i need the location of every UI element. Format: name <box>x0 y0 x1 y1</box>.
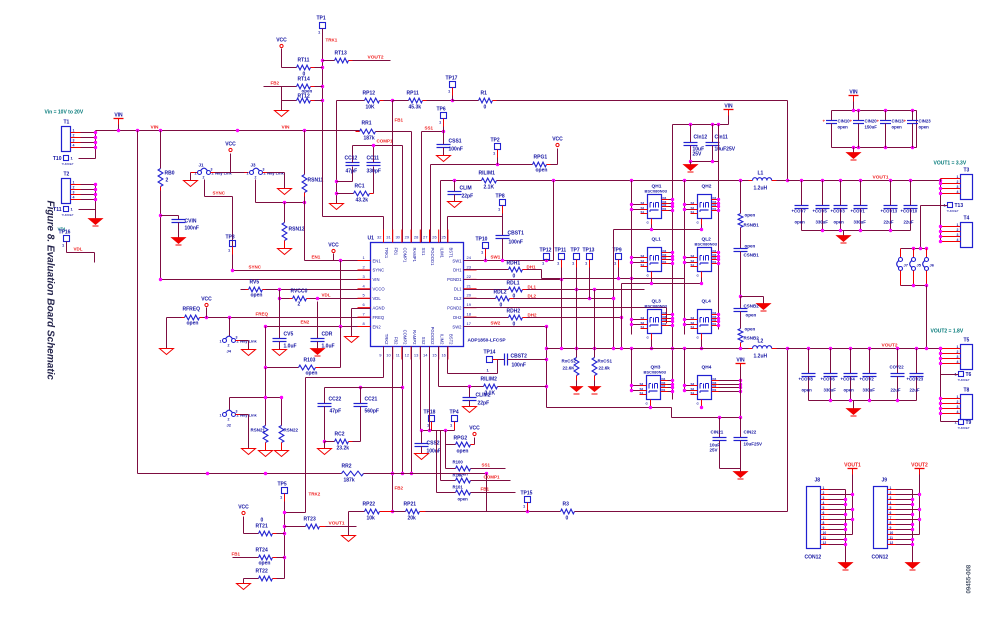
svg-text:T2: T2 <box>64 172 70 178</box>
svg-text:TURRET: TURRET <box>958 378 970 382</box>
svg-text:TP1: TP1 <box>317 16 326 22</box>
svg-text:RAMP1: RAMP1 <box>412 248 417 263</box>
wire R101 right <box>471 492 516 494</box>
transistor QL1 <box>641 237 669 278</box>
wire vout1 bank bottom <box>802 230 911 232</box>
capacitor CC21 <box>354 388 379 442</box>
svg-text:S1: S1 <box>641 263 645 267</box>
svg-text:TRK1: TRK1 <box>326 38 338 43</box>
ground CVIN <box>172 238 186 246</box>
ground RP22 <box>342 536 356 542</box>
svg-text:EN1: EN1 <box>312 255 321 260</box>
wire R101 left <box>437 431 456 493</box>
resistor RT24 <box>233 548 285 567</box>
svg-text:J2: J2 <box>227 423 232 428</box>
testpoint TP17 <box>446 76 458 101</box>
junction <box>650 228 703 231</box>
svg-text:3: 3 <box>957 233 959 237</box>
svg-text:22: 22 <box>467 274 472 279</box>
svg-text:CIN10: CIN10 <box>838 119 851 124</box>
svg-text:RILIM2: RILIM2 <box>481 377 498 383</box>
svg-text:EN2: EN2 <box>373 324 382 329</box>
wire links top <box>901 248 927 250</box>
svg-text:D1: D1 <box>713 388 717 392</box>
svg-text:RT23: RT23 <box>304 517 316 523</box>
svg-text:2: 2 <box>228 418 230 422</box>
capacitor COV3 <box>831 181 848 231</box>
ground J8 <box>839 563 853 571</box>
wire VDL row <box>280 298 371 300</box>
svg-text:T3: T3 <box>964 168 970 174</box>
svg-text:RT13: RT13 <box>335 51 347 57</box>
svg-text:26: 26 <box>432 235 437 240</box>
testpoint TP4 <box>450 410 459 431</box>
svg-text:CIN21: CIN21 <box>711 430 724 435</box>
svg-text:R100: R100 <box>453 460 464 465</box>
wire SW1 row <box>464 260 554 262</box>
wire SW1 rail <box>497 180 753 182</box>
junction <box>649 406 742 419</box>
svg-text:SS2: SS2 <box>421 337 426 346</box>
resistor RSN11 <box>302 131 323 203</box>
svg-text:1: 1 <box>195 172 197 176</box>
wire J3 right <box>263 173 285 189</box>
svg-text:21: 21 <box>467 283 472 288</box>
ground CLIM <box>448 202 462 208</box>
svg-text:TP3: TP3 <box>226 235 235 241</box>
svg-text:+COV7: +COV7 <box>792 209 807 214</box>
svg-text:QH4: QH4 <box>702 365 712 371</box>
wire QL3 conns <box>630 313 674 327</box>
wire CVIN gnd <box>178 223 180 238</box>
capacitor CIn11 <box>706 125 736 162</box>
svg-text:2: 2 <box>255 176 257 180</box>
wire EN2 lower <box>230 368 282 426</box>
label FB1 mid <box>395 118 404 123</box>
wire RR2 row right <box>364 473 487 475</box>
svg-text:25: 25 <box>441 235 446 240</box>
junction <box>786 347 789 350</box>
svg-text:12: 12 <box>405 353 410 358</box>
svg-text:open: open <box>892 125 903 130</box>
resistor RP12 <box>337 91 393 111</box>
svg-text:32: 32 <box>377 235 382 240</box>
svg-text:R101: R101 <box>453 485 464 490</box>
capacitor COV4 <box>841 349 858 401</box>
resistor R101 <box>453 485 471 502</box>
junction <box>391 472 394 513</box>
svg-text:RxCS2: RxCS2 <box>562 359 577 364</box>
capacitor COV22 <box>890 349 905 401</box>
wire T8 pins <box>939 397 942 415</box>
resistor RILIM2 <box>481 377 498 397</box>
testpoint TP14 <box>484 350 498 373</box>
svg-text:SS1: SS1 <box>425 126 434 131</box>
resistor RSN12 <box>282 203 305 249</box>
capacitor CSNB2 <box>734 297 760 318</box>
label FREQ <box>256 312 269 317</box>
resistor RPG2 <box>446 436 475 455</box>
ground J3 <box>278 189 292 195</box>
ground AGND <box>345 337 359 343</box>
capacitor CC11 <box>367 146 381 194</box>
junction <box>117 129 120 132</box>
label FB1 right <box>481 487 490 492</box>
svg-text:VDL: VDL <box>373 296 382 301</box>
svg-text:RP11: RP11 <box>407 91 419 97</box>
turret T9 <box>955 420 972 431</box>
resistor RxCS1 <box>592 290 612 381</box>
svg-text:VCC: VCC <box>276 38 287 44</box>
wire QH2 source bus <box>684 181 686 335</box>
svg-text:3: 3 <box>236 410 238 414</box>
svg-text:1: 1 <box>957 395 959 399</box>
svg-text:29: 29 <box>405 235 410 240</box>
junction <box>484 259 548 262</box>
ground RSN22 <box>275 451 289 457</box>
svg-text:DH2: DH2 <box>528 313 537 318</box>
wire VIN row <box>161 279 371 281</box>
transistor QL3 <box>641 299 669 340</box>
svg-text:10uF25V: 10uF25V <box>715 147 736 153</box>
ground RxCS2 <box>571 381 583 395</box>
wire ILIM2 <box>439 347 484 387</box>
wire QL gates row <box>622 278 702 284</box>
svg-text:100nF: 100nF <box>185 226 199 232</box>
junction <box>442 130 445 133</box>
svg-text:31: 31 <box>386 235 391 240</box>
label TRK2 <box>309 492 321 497</box>
resistor R103 <box>266 358 341 377</box>
svg-text:CIN23: CIN23 <box>919 119 932 124</box>
wire T11 to bus <box>79 209 96 211</box>
svg-text:12: 12 <box>890 541 894 545</box>
resistor RB0 <box>158 131 175 191</box>
junction <box>359 386 404 389</box>
svg-text:TP5: TP5 <box>278 482 287 488</box>
wire T10 to bus <box>79 158 96 160</box>
capacitor CSNB1 <box>734 228 760 297</box>
junction <box>560 347 742 350</box>
svg-text:TURRET: TURRET <box>947 209 959 213</box>
capacitor CDR <box>311 302 335 350</box>
svg-text:TRK2: TRK2 <box>309 492 321 497</box>
svg-text:S1: S1 <box>641 325 645 329</box>
wire RPG1 vcc stem <box>557 149 559 165</box>
resistor RP21 <box>393 502 426 522</box>
svg-text:CON12: CON12 <box>805 555 822 561</box>
wire COMP1 vertical <box>402 146 404 243</box>
turret T6 <box>955 372 972 383</box>
resistor RDH1 <box>464 261 542 280</box>
svg-text:RDH1: RDH1 <box>507 261 521 267</box>
wire VIN rail <box>96 130 360 132</box>
svg-text:CVIN: CVIN <box>185 219 197 225</box>
wire TP16 VDL <box>67 242 95 263</box>
junction <box>206 472 267 475</box>
svg-text:COMP1: COMP1 <box>403 248 408 264</box>
svg-text:T8: T8 <box>964 388 970 394</box>
connector T1 <box>62 120 81 152</box>
svg-text:3: 3 <box>957 405 959 409</box>
svg-text:17: 17 <box>467 321 472 326</box>
svg-text:S3: S3 <box>691 316 695 320</box>
wire J4 right <box>236 341 249 350</box>
svg-text:22uF: 22uF <box>910 388 920 393</box>
capacitor CLIM2 <box>463 387 491 407</box>
ground RSN12 <box>278 249 292 255</box>
ground CSS1 <box>437 156 451 162</box>
svg-text:30: 30 <box>395 235 400 240</box>
ground snub <box>757 304 771 312</box>
svg-text:TP16: TP16 <box>59 230 71 236</box>
svg-text:+COV13: +COV13 <box>881 209 898 214</box>
jumper J3 <box>247 163 285 180</box>
ground RFREQ <box>160 349 174 355</box>
label COMP1 right <box>484 475 501 480</box>
svg-text:VCC: VCC <box>552 137 563 143</box>
svg-text:J4: J4 <box>227 349 232 354</box>
svg-text:4: 4 <box>957 410 959 414</box>
svg-text:FB1: FB1 <box>393 248 398 256</box>
wire ILIM rail left <box>441 180 482 182</box>
svg-text:+: + <box>877 119 880 124</box>
capacitor CIN10 <box>823 111 851 148</box>
svg-text:22uF: 22uF <box>884 220 894 225</box>
svg-text:TP7: TP7 <box>571 248 580 254</box>
wire QH2 conns <box>683 198 720 212</box>
svg-text:open: open <box>458 497 469 502</box>
wire cin bottom <box>691 161 719 163</box>
transistor QL4 <box>691 299 719 340</box>
wire TRK1 vertical <box>322 29 324 217</box>
wire FB2 sense row <box>426 511 561 513</box>
wire TP11 down <box>561 280 563 349</box>
capacitor CLIM <box>448 181 474 202</box>
svg-text:R3: R3 <box>563 502 570 508</box>
svg-text:3: 3 <box>957 355 959 359</box>
junction <box>401 472 413 475</box>
wire J3 en path <box>256 180 305 203</box>
wire EN2 branch <box>265 327 267 368</box>
svg-text:150uF: 150uF <box>865 125 878 130</box>
svg-text:FB1: FB1 <box>481 487 490 492</box>
svg-text:0: 0 <box>513 274 516 280</box>
svg-text:10: 10 <box>890 531 894 535</box>
connector T5 <box>941 338 973 370</box>
svg-text:AGND: AGND <box>373 305 385 310</box>
wire R103 up <box>340 327 342 368</box>
svg-text:VOUT1: VOUT1 <box>329 521 345 527</box>
svg-text:1: 1 <box>890 486 892 490</box>
jumper J2 <box>220 410 258 428</box>
resistor R100 <box>453 460 471 477</box>
svg-text:open: open <box>259 561 271 567</box>
svg-text:TP6: TP6 <box>437 107 446 113</box>
wire QH34 tails <box>547 406 741 418</box>
svg-text:Figure 8. Evaluation Board Sch: Figure 8. Evaluation Board Schematic <box>45 201 56 381</box>
svg-text:CBST2: CBST2 <box>511 354 528 360</box>
label SYNC row <box>249 265 262 270</box>
svg-text:S1: S1 <box>691 210 695 214</box>
label VOUT2 top <box>368 55 384 61</box>
junction <box>800 179 942 182</box>
svg-text:1: 1 <box>73 181 75 185</box>
capacitor CVIN <box>172 219 199 232</box>
wire QH4 conns <box>683 379 742 393</box>
svg-text:TP8: TP8 <box>496 194 505 200</box>
svg-text:open: open <box>745 327 756 332</box>
power bar VIN input <box>114 113 124 125</box>
svg-text:PGOOD1: PGOOD1 <box>430 248 435 267</box>
svg-text:RT21: RT21 <box>256 524 268 530</box>
wire vin bank stem <box>853 102 855 111</box>
svg-text:23: 23 <box>467 264 472 269</box>
svg-text:45.3k: 45.3k <box>409 105 422 111</box>
svg-text:330uF: 330uF <box>854 220 867 225</box>
resistor RILIM1 <box>479 171 497 191</box>
resistor RP11 <box>393 91 453 111</box>
wire T4 pins <box>939 225 942 243</box>
label EN1 <box>312 255 321 260</box>
svg-text:4: 4 <box>823 501 825 505</box>
svg-text:3: 3 <box>957 185 959 189</box>
connector J9 <box>872 478 896 561</box>
svg-text:L2: L2 <box>758 339 764 345</box>
svg-text:TURRET: TURRET <box>958 426 970 430</box>
svg-text:SYNC: SYNC <box>373 268 385 273</box>
svg-text:SS1: SS1 <box>421 248 426 257</box>
testpoint TP2 <box>491 138 501 165</box>
wire BST1 <box>448 217 503 243</box>
svg-text:16: 16 <box>441 353 446 358</box>
svg-text:RP12: RP12 <box>363 91 376 97</box>
svg-text:VCC: VCC <box>201 297 212 303</box>
ground J2 <box>242 449 256 455</box>
svg-text:DL2: DL2 <box>528 294 537 299</box>
wire VIN dist <box>673 116 729 125</box>
svg-text:RSN22: RSN22 <box>284 428 299 433</box>
svg-text:QL1: QL1 <box>652 237 662 243</box>
svg-text:PGOOD2: PGOOD2 <box>430 327 435 346</box>
svg-text:D1: D1 <box>713 207 717 211</box>
capacitor CIN20 <box>850 111 878 148</box>
svg-text:S3: S3 <box>641 201 645 205</box>
svg-text:open: open <box>834 220 845 225</box>
wire QL2 conns <box>683 251 720 265</box>
svg-text:COMP2: COMP2 <box>403 330 408 346</box>
svg-text:TP17: TP17 <box>446 76 458 82</box>
wire DL1 row <box>527 289 645 291</box>
svg-text:FB1: FB1 <box>395 118 404 123</box>
svg-text:4: 4 <box>957 360 959 364</box>
wire SYNC row <box>233 270 371 272</box>
svg-text:47pF: 47pF <box>330 409 342 415</box>
svg-text:1.2uH: 1.2uH <box>754 354 768 360</box>
label VOUT2 rail <box>882 343 898 349</box>
wire VCC RT21 <box>244 517 259 534</box>
wire QH1 drain bus <box>672 125 674 400</box>
svg-text:3: 3 <box>73 139 75 143</box>
svg-text:S1: S1 <box>691 263 695 267</box>
svg-text:RT12: RT12 <box>298 94 310 100</box>
testpoint TP12 <box>540 248 552 266</box>
ground CSS2 <box>415 454 429 460</box>
ground vout1 bank <box>837 231 851 244</box>
svg-text:20: 20 <box>467 293 472 298</box>
svg-text:VIN: VIN <box>282 125 291 131</box>
svg-text:22pF: 22pF <box>478 401 490 407</box>
svg-text:22uF: 22uF <box>891 388 901 393</box>
junction FREQ <box>205 316 231 319</box>
svg-text:RC2: RC2 <box>335 432 345 438</box>
wire RFREQ gnd <box>166 318 168 349</box>
svg-text:R103: R103 <box>304 358 316 364</box>
label DL1 <box>528 285 537 290</box>
svg-text:100nF: 100nF <box>449 147 463 153</box>
label VIN rail <box>151 125 291 131</box>
svg-text:VCC: VCC <box>328 243 339 249</box>
svg-text:VOUT2 = 1.8V: VOUT2 = 1.8V <box>931 329 964 335</box>
svg-text:CC12: CC12 <box>345 156 358 162</box>
svg-text:2: 2 <box>957 228 959 232</box>
capacitor CSS2 <box>415 431 441 455</box>
svg-text:J5: J5 <box>917 263 922 268</box>
junction <box>844 493 854 546</box>
svg-text:19: 19 <box>467 302 472 307</box>
svg-text:RPG2: RPG2 <box>454 436 468 442</box>
svg-text:330uF: 330uF <box>863 388 876 393</box>
wire R100 right <box>471 468 506 470</box>
label SS1 right <box>482 463 491 468</box>
wire T5T8 bus <box>940 349 942 422</box>
capacitor COV5 <box>813 181 830 231</box>
junction <box>852 109 914 149</box>
svg-text:TP2: TP2 <box>491 138 500 144</box>
svg-text:open: open <box>536 168 548 174</box>
svg-text:PGND2: PGND2 <box>447 305 462 310</box>
svg-text:22pF: 22pF <box>462 194 474 200</box>
svg-text:ILIM1: ILIM1 <box>439 248 444 259</box>
label SYNC upper <box>213 191 226 196</box>
wire QL gate drop <box>621 284 623 349</box>
svg-text:VIN: VIN <box>724 104 733 110</box>
wire cin box top <box>832 110 917 112</box>
svg-text:3: 3 <box>890 496 892 500</box>
svg-text:T1: T1 <box>64 120 70 126</box>
svg-text:187k: 187k <box>364 136 375 142</box>
svg-text:+: + <box>823 119 826 124</box>
testpoint TP8 <box>496 194 506 217</box>
svg-text:CBST1: CBST1 <box>508 231 525 237</box>
junction <box>689 160 714 163</box>
svg-text:CSNB2: CSNB2 <box>744 304 760 309</box>
wire snub gnd <box>741 297 764 304</box>
turret T13 <box>944 203 964 214</box>
junction <box>588 297 615 300</box>
power VCC J1J3 <box>225 142 236 152</box>
wire J2 right <box>236 415 249 449</box>
capacitor COV23 <box>907 349 924 401</box>
svg-text:VCC: VCC <box>469 426 480 432</box>
svg-text:FB1: FB1 <box>232 552 241 557</box>
wire FB1 vertical <box>392 101 394 243</box>
ground cin <box>684 162 698 173</box>
resistor RR1 <box>356 121 412 142</box>
svg-text:SYNC: SYNC <box>213 191 226 196</box>
wire cin2 bottom <box>720 468 741 470</box>
resistor RSNB1 <box>738 181 759 228</box>
